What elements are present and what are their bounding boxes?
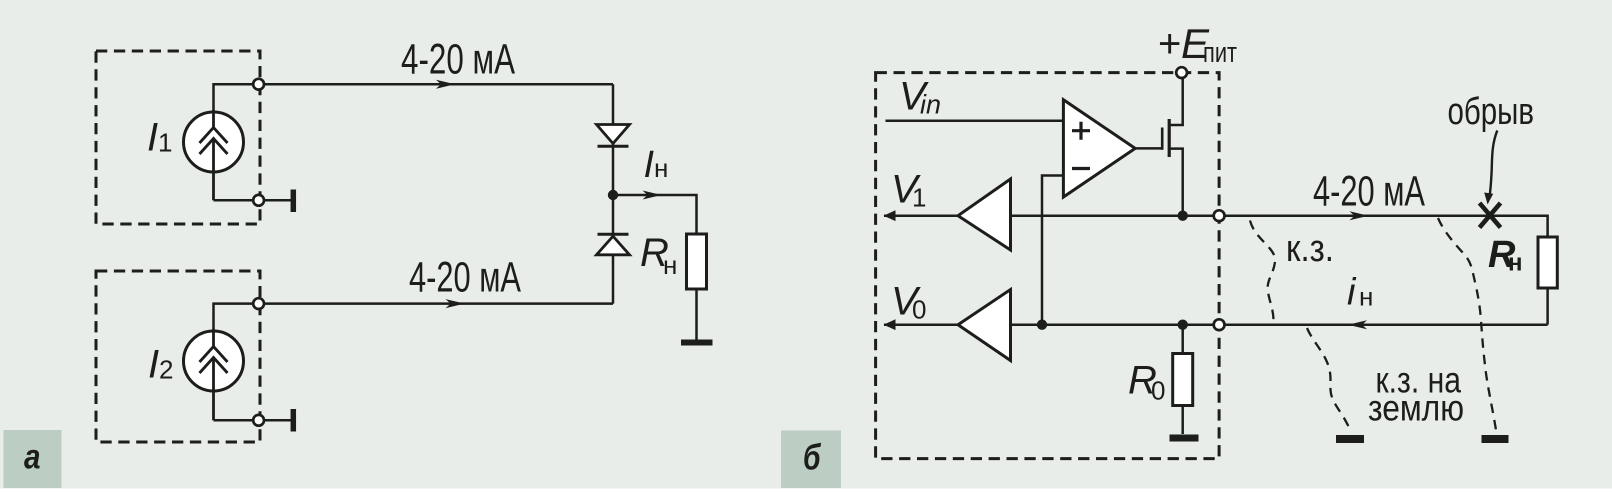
svg-text:н: н [663,250,677,280]
dashed box converter (b) [876,73,1220,459]
terminal I1 minus [253,195,264,206]
wavy short kz between lines [1250,221,1275,325]
wire drain to Epit terminal [1169,78,1183,125]
label I1 [147,116,172,160]
label RH (b) [1488,234,1523,277]
buffer amp V1 [884,179,1011,250]
label RH (a) [640,231,677,280]
bottom white strip [0,489,1612,493]
label Vin [899,75,941,120]
svg-text:2: 2 [159,355,173,385]
svg-text:+: + [1158,22,1181,66]
wire diode bus vertical [612,84,615,303]
arrow In [643,191,662,200]
dashed box source I2 [96,271,260,442]
resistor RH load (a) [687,234,707,340]
terminal output bottom [1214,319,1225,330]
arrow current return [1348,320,1367,329]
svg-text:I: I [147,116,158,160]
dashed box source I1 [96,51,260,224]
resistor RH load (b) [1538,237,1557,325]
node source junction [1178,211,1188,221]
wire I2 bottom [214,419,292,422]
wire output line bottom [1011,323,1548,326]
svg-text:0: 0 [912,295,926,325]
arrow current wire 2 [446,299,465,308]
ground bar under R0 [1170,435,1199,442]
op-amp U1 [1063,100,1135,197]
svg-text:обрыв: обрыв [1448,91,1535,133]
terminal I2 plus [253,298,264,309]
svg-text:пит: пит [1203,37,1237,69]
label box b [781,431,841,489]
wavy short kz to ground right [1438,218,1496,430]
wire output line top [1011,216,1548,237]
label In [644,144,669,186]
svg-text:I: I [644,144,655,186]
svg-text:к.з.: к.з. [1286,228,1334,270]
label in current [1347,272,1373,314]
wire I2 top to diode bus [214,304,614,347]
svg-text:б: б [803,437,822,478]
arrow current wire 1 [436,80,455,89]
svg-text:4-20 мА: 4-20 мА [409,254,521,302]
svg-text:землю: землю [1368,387,1464,428]
wire op-amp output to gate [1135,147,1162,150]
label kz na zemlyu [1368,360,1464,429]
terminal output top [1214,210,1225,221]
ground bar kz right [1482,435,1509,443]
wire I1 top to diode bus [214,84,614,128]
ground bar under RH (a) [681,340,713,346]
svg-text:н: н [1359,282,1373,312]
svg-text:4-20 мА: 4-20 мА [1313,168,1425,216]
wire I1 bottom [214,199,292,202]
node feedback junction [1037,320,1047,330]
label V0 [891,280,926,325]
svg-text:I: I [148,343,159,387]
label box a [4,430,62,488]
label V1 [891,168,926,213]
label I2 [148,343,173,387]
svg-text:in: in [920,90,941,120]
svg-text:4-20 мА: 4-20 мА [401,36,515,84]
ground tbar I2 [291,409,297,432]
arrow obryv pointer [1484,131,1497,205]
break mark X [1480,203,1501,228]
transistor Q1 [1162,119,1183,216]
terminal I2 minus [253,415,264,426]
diode VD2 [597,234,630,255]
svg-text:1: 1 [912,183,926,213]
node diode junction [608,190,618,200]
buffer amp V0 [884,290,1011,361]
terminal Epit [1176,67,1187,78]
wavy short kz to ground left [1307,328,1350,432]
ground tbar I1 [291,190,297,213]
svg-text:а: а [24,438,41,477]
wire Vin input [886,119,1064,122]
wire feedback minus input [1042,176,1063,325]
current source I2 [184,329,244,420]
resistor R0 [1173,325,1193,434]
svg-text:0: 0 [1151,376,1165,406]
svg-text:н: н [654,153,668,183]
arrow current out [1350,211,1369,220]
node R0 junction [1178,320,1188,330]
current source I1 [184,110,244,200]
label R0 [1128,359,1165,406]
label +Epit [1158,20,1237,69]
wire In to load [613,195,697,234]
terminal I1 plus [253,79,264,90]
ground bar kz left [1336,435,1364,443]
svg-text:1: 1 [158,128,172,158]
svg-text:н: н [1508,250,1523,277]
diode VD1 [597,125,630,147]
